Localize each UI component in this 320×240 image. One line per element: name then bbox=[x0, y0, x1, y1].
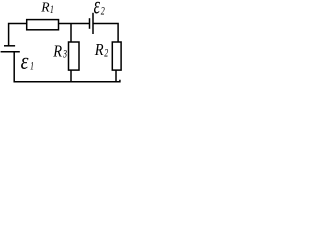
svg-text:1: 1 bbox=[30, 60, 34, 73]
svg-text:2: 2 bbox=[104, 47, 108, 60]
svg-text:2: 2 bbox=[101, 5, 105, 18]
svg-text:R: R bbox=[94, 41, 104, 59]
svg-text:R: R bbox=[40, 0, 50, 15]
svg-text:3: 3 bbox=[62, 48, 67, 61]
svg-text:1: 1 bbox=[50, 4, 54, 17]
svg-text:ε: ε bbox=[21, 47, 29, 75]
svg-text:ε: ε bbox=[94, 0, 101, 20]
svg-text:R: R bbox=[52, 43, 62, 61]
